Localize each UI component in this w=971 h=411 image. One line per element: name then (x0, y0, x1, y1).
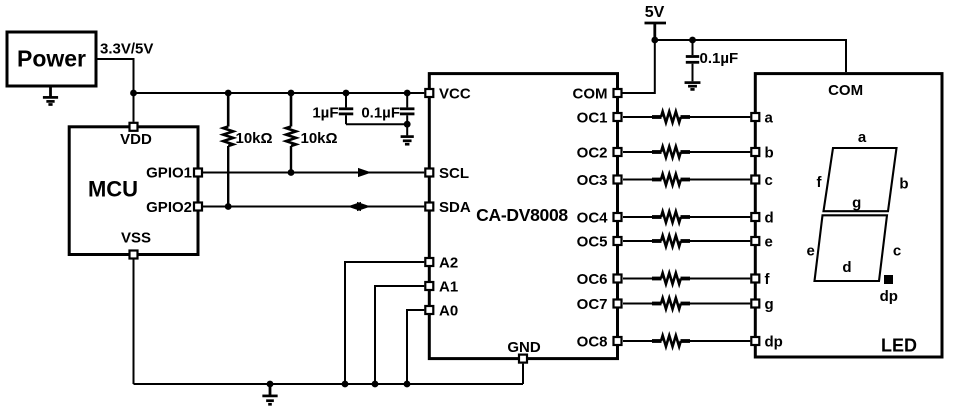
junction rail-A0 (404, 381, 411, 388)
pin IC SCL (425, 169, 433, 177)
svg-text:SCL: SCL (439, 165, 469, 182)
wire SCL GPIO1 to IC (203, 172, 424, 174)
wire OC-dp left segment (623, 340, 653, 342)
wire resistor to LED pin a (690, 116, 750, 118)
power supply box (7, 32, 96, 86)
wire rail to VDD pin (133, 93, 135, 122)
resistor Ra series (652, 112, 690, 123)
wire resistor to LED pin c (690, 179, 750, 181)
wire OC-b left segment (623, 151, 653, 153)
pin IC A2 (425, 258, 433, 266)
driver IC CA-DV8008 box (429, 74, 617, 359)
junction rail-R2 (288, 90, 295, 97)
ground GND under C3 (685, 83, 701, 90)
capacitor C3 0.1uF (686, 57, 699, 63)
junction C3 tap (689, 37, 696, 44)
pin LED g (751, 300, 759, 308)
svg-text:dp: dp (765, 334, 783, 351)
wire OC-g left segment (623, 303, 653, 305)
resistor R1 10k pull-up (223, 93, 233, 207)
pin IC A1 (425, 282, 433, 290)
wire C1 bottom (345, 115, 347, 124)
pin LED a (751, 113, 759, 121)
svg-text:d: d (765, 210, 774, 227)
svg-text:OC6: OC6 (577, 271, 608, 288)
resistor Rf series (652, 273, 690, 284)
svg-text:OC8: OC8 (577, 334, 608, 351)
svg-text:e: e (765, 234, 773, 251)
wire A2 to ground rail (345, 262, 424, 384)
svg-text:c: c (893, 243, 901, 260)
pin LED b (751, 148, 759, 156)
junction R1-SDA (225, 203, 232, 210)
wire OC-e left segment (623, 240, 653, 242)
wire C1 to C2 bottom link (346, 123, 407, 125)
resistor R2 10k pull-up (286, 93, 296, 173)
ground GND under C2 (401, 137, 414, 145)
svg-text:VDD: VDD (120, 131, 152, 148)
pin IC OC4 (614, 213, 622, 221)
pin IC VCC (425, 89, 433, 97)
svg-text:d: d (842, 259, 851, 276)
pin IC OC2 (614, 148, 622, 156)
junction rail-A2 (342, 381, 349, 388)
wire 5V branch to LED COM (655, 40, 846, 72)
supply 5V symbol (645, 4, 667, 23)
pin IC OC1 (614, 113, 622, 121)
svg-text:OC3: OC3 (577, 172, 608, 189)
svg-text:a: a (765, 110, 774, 127)
svg-text:SDA: SDA (439, 199, 471, 216)
svg-text:CA-DV8008: CA-DV8008 (476, 205, 568, 225)
capacitor C1 1uF (339, 109, 354, 114)
wire ground rail (134, 383, 524, 385)
svg-text:a: a (858, 129, 867, 146)
svg-text:VCC: VCC (439, 86, 471, 103)
ground GND under Power (43, 87, 58, 104)
pin VDD (130, 123, 138, 131)
wire C2 bottom to ground (406, 115, 408, 135)
svg-text:1µF: 1µF (312, 105, 338, 122)
pin IC OC7 (614, 300, 622, 308)
svg-text:5V: 5V (645, 4, 665, 21)
pin GPIO2 (194, 203, 202, 211)
wire C3 to ground (692, 64, 694, 82)
seven-segment upper half (segments a,f,b,g) (824, 148, 897, 211)
pin IC SDA (425, 203, 433, 211)
svg-text:LED: LED (881, 336, 917, 356)
svg-text:Power: Power (17, 46, 86, 72)
pin IC OC5 (614, 237, 622, 245)
svg-text:OC1: OC1 (577, 110, 608, 127)
wire rail to C2 (406, 93, 408, 107)
junction rail-gnd (267, 381, 274, 388)
wire resistor to LED pin f (690, 278, 750, 280)
resistor Rc series (652, 174, 690, 185)
pin IC GND (519, 355, 527, 363)
junction rail-R1 (225, 90, 232, 97)
svg-text:g: g (852, 195, 861, 212)
resistor Rdp series (652, 336, 690, 347)
svg-text:VSS: VSS (121, 230, 151, 247)
wire OC-c left segment (623, 179, 653, 181)
svg-text:b: b (899, 176, 908, 193)
svg-text:A1: A1 (439, 279, 458, 296)
junction rail-C1 (343, 90, 350, 97)
pin IC A0 (425, 306, 433, 314)
junction C1C2-bottom (404, 121, 411, 128)
pin LED c (751, 176, 759, 184)
wire OC-f left segment (623, 278, 653, 280)
capacitor C2 0.1uF (400, 109, 415, 114)
wire resistor to LED pin g (690, 303, 750, 305)
pin IC OC3 (614, 176, 622, 184)
junction 5V branch (651, 37, 658, 44)
pin LED d (751, 213, 759, 221)
decimal point dp square (884, 275, 893, 284)
pin IC COM (614, 89, 622, 97)
wire A1 to ground rail (375, 286, 424, 384)
svg-text:e: e (807, 243, 815, 260)
svg-text:0.1µF: 0.1µF (361, 105, 400, 122)
svg-text:A0: A0 (439, 303, 458, 320)
svg-text:0.1µF: 0.1µF (700, 50, 739, 67)
pin VSS (130, 251, 138, 259)
svg-text:3.3V/5V: 3.3V/5V (100, 41, 153, 58)
svg-text:dp: dp (880, 288, 898, 305)
wire SDA GPIO2 to IC (203, 206, 424, 208)
wire resistor to LED pin e (690, 240, 750, 242)
MCU box (69, 127, 198, 255)
junction rail-A1 (372, 381, 379, 388)
resistor Re series (652, 236, 690, 247)
seven-segment lower half (segments e,d,c) (815, 215, 888, 281)
ground GND bottom rail (262, 384, 277, 404)
svg-text:COM: COM (828, 82, 863, 99)
resistor Rg series (652, 298, 690, 309)
junction R2-SCL (288, 169, 295, 176)
pin IC OC6 (614, 275, 622, 283)
svg-text:A2: A2 (439, 255, 458, 272)
wire 5V to COM pin (653, 23, 656, 40)
wire IC GND down (522, 364, 524, 384)
pin GPIO1 (194, 169, 202, 177)
wire OC-d left segment (623, 216, 653, 218)
svg-text:MCU: MCU (88, 177, 138, 202)
svg-text:COM: COM (573, 86, 608, 103)
svg-text:g: g (765, 296, 774, 313)
wire OC-a left segment (623, 116, 653, 118)
junction rail-C2 (404, 90, 411, 97)
svg-text:OC5: OC5 (577, 234, 608, 251)
arrow SCL right (358, 168, 372, 177)
LED 7-segment display box (755, 74, 942, 357)
svg-text:GND: GND (507, 339, 541, 356)
svg-text:10kΩ: 10kΩ (301, 130, 338, 147)
pin LED e (751, 237, 759, 245)
resistor Rd series (652, 212, 690, 223)
pin IC OC8 (614, 337, 622, 345)
svg-text:OC4: OC4 (577, 210, 609, 227)
wire resistor to LED pin d (690, 216, 750, 218)
wire resistor to LED pin dp (690, 340, 750, 342)
arrow SDA bidirectional (347, 202, 371, 211)
resistor Rb series (652, 147, 690, 158)
svg-text:OC2: OC2 (577, 145, 608, 162)
wire VSS down (133, 260, 135, 385)
wire A0 to ground rail (407, 310, 424, 384)
svg-text:OC7: OC7 (577, 296, 608, 313)
wire to C3 (692, 40, 694, 55)
pin LED f (751, 275, 759, 283)
svg-text:GPIO2: GPIO2 (146, 199, 192, 216)
svg-text:GPIO1: GPIO1 (146, 165, 192, 182)
junction rail-power (130, 90, 137, 97)
wire resistor to LED pin b (690, 151, 750, 153)
wire rail to C1 (345, 93, 347, 107)
wire VCC rail (134, 92, 425, 94)
svg-text:c: c (765, 172, 773, 189)
pin LED dp (751, 337, 759, 345)
wire Power to VDD rail (96, 59, 134, 93)
svg-text:b: b (765, 145, 774, 162)
svg-text:10kΩ: 10kΩ (236, 130, 273, 147)
